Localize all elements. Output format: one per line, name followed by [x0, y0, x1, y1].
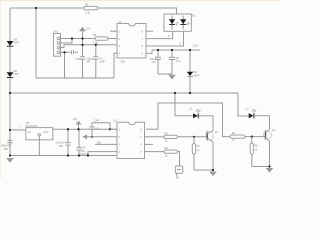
svg-text:R4: R4 [165, 131, 169, 135]
svg-text:103: 103 [76, 57, 81, 61]
svg-text:U1: U1 [118, 20, 122, 24]
svg-text:16V: 16V [59, 144, 64, 148]
svg-text:4007: 4007 [14, 41, 20, 45]
svg-text:104F: 104F [99, 60, 105, 64]
svg-text:4007: 4007 [14, 72, 20, 76]
svg-text:C10: C10 [81, 146, 86, 150]
svg-text:Q2: Q2 [272, 128, 276, 132]
svg-text:R6: R6 [232, 131, 236, 135]
svg-text:25V: 25V [4, 147, 9, 151]
svg-text:R2: R2 [93, 33, 97, 37]
svg-text:103: 103 [89, 57, 94, 61]
svg-text:R1: R1 [85, 3, 89, 7]
svg-text:B1: B1 [176, 176, 180, 180]
svg-text:Vout: Vout [43, 130, 48, 134]
svg-text:4.7u: 4.7u [176, 59, 182, 63]
svg-text:C4F: C4F [94, 119, 99, 123]
svg-text:+12v: +12v [193, 43, 199, 47]
svg-text:D5: D5 [192, 14, 196, 18]
svg-text:100uC9: 100uC9 [56, 141, 66, 145]
svg-text:CN1: CN1 [53, 30, 59, 34]
svg-text:100uFC8: 100uFC8 [1, 144, 12, 148]
svg-text:104: 104 [95, 127, 100, 131]
svg-text:Q1: Q1 [215, 130, 219, 134]
svg-text:555: 555 [121, 59, 126, 63]
svg-text:KIA78L05: KIA78L05 [26, 124, 38, 128]
svg-text:1.3k: 1.3k [85, 10, 91, 14]
svg-text:12V: 12V [86, 27, 91, 31]
svg-text:R3: R3 [165, 146, 169, 150]
svg-text:4004: 4004 [194, 73, 200, 77]
svg-text:U2: U2 [113, 118, 117, 122]
svg-text:10k: 10k [97, 140, 102, 144]
svg-text:Vin: Vin [27, 130, 31, 134]
svg-text:R8: R8 [254, 144, 258, 148]
svg-text:R7: R7 [197, 144, 201, 148]
svg-text:+5V: +5V [73, 117, 78, 121]
svg-text:16V: 16V [151, 60, 156, 64]
